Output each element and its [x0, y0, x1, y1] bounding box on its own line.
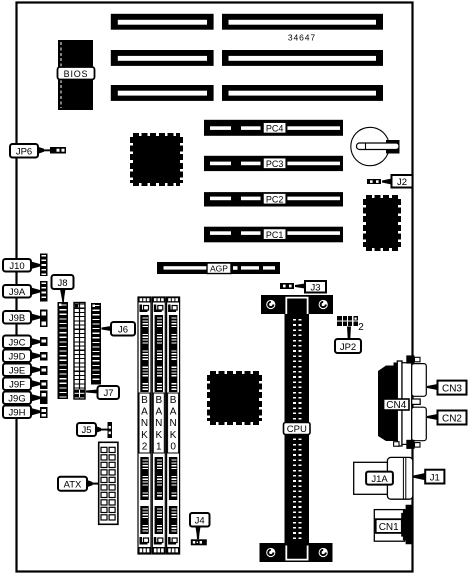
label J9B	[3, 311, 40, 324]
svg-text:CPU: CPU	[287, 424, 307, 435]
svg-text:J4: J4	[195, 515, 205, 526]
header J9F component	[40, 380, 48, 389]
svg-text:J5: J5	[81, 425, 91, 436]
svg-text:JP6: JP6	[16, 147, 32, 158]
connector J1A body	[354, 457, 413, 499]
label J4	[190, 513, 210, 539]
I/O bracket rail	[397, 361, 402, 446]
svg-text:J9G: J9G	[8, 394, 25, 405]
jumper JP6 target component	[50, 147, 66, 154]
svg-text:2: 2	[358, 322, 364, 333]
svg-text:B: B	[155, 395, 162, 406]
label J9D	[3, 350, 40, 363]
header J9E component	[40, 366, 48, 375]
label J9H	[3, 406, 40, 419]
label J9A	[3, 285, 40, 298]
ISA slot row 3 right segment	[222, 85, 383, 101]
label J9C	[3, 336, 40, 349]
ISA slot row 2 left segment	[111, 50, 214, 66]
DIMM socket BANK1	[152, 297, 165, 554]
header J4 component	[191, 539, 207, 545]
svg-text:A: A	[141, 407, 148, 418]
svg-text:J8: J8	[57, 278, 67, 289]
svg-text:PC2: PC2	[266, 194, 284, 204]
label J5	[77, 423, 108, 436]
svg-text:J9E: J9E	[9, 366, 25, 377]
svg-text:CN3: CN3	[442, 384, 462, 395]
header J9B component	[40, 310, 48, 328]
label CN4	[384, 399, 409, 411]
memory strip J8	[58, 302, 69, 399]
ISA slot row 3 left segment	[111, 85, 214, 101]
label J2	[382, 175, 413, 188]
svg-text:CN4: CN4	[386, 400, 406, 411]
label J8	[52, 275, 74, 302]
svg-text:PC3: PC3	[266, 159, 284, 169]
mid tab between CN3 and CN2	[412, 399, 421, 404]
svg-text:J9B: J9B	[9, 313, 25, 324]
svg-text:J9D: J9D	[9, 352, 26, 363]
label J1	[414, 470, 445, 484]
label CN3	[427, 381, 467, 395]
CPU slot bottom bracket	[260, 543, 333, 562]
I/O panel body	[402, 363, 412, 445]
svg-text:0: 0	[170, 441, 176, 452]
svg-text:J9H: J9H	[9, 408, 26, 419]
label JP6	[10, 144, 50, 158]
svg-text:K: K	[170, 430, 177, 441]
header J9H component	[40, 407, 48, 418]
label J9E	[3, 364, 40, 377]
CPU slot vertical body	[285, 314, 310, 543]
svg-text:J10: J10	[9, 261, 24, 272]
svg-text:J7: J7	[103, 388, 113, 399]
header J9C component	[40, 337, 48, 346]
svg-text:JP2: JP2	[340, 342, 356, 353]
PCI slot PC4	[204, 120, 343, 136]
PCI slot PC1	[204, 227, 343, 243]
part number 34647	[288, 33, 316, 43]
header J9G component	[40, 391, 48, 405]
PCI slot PC3	[204, 156, 343, 171]
label ATX	[58, 477, 99, 491]
DIMM socket BANK0	[167, 297, 180, 554]
label CPU	[284, 423, 311, 436]
chipset U1 (north bridge QFP)	[132, 135, 181, 184]
svg-text:CN1: CN1	[379, 522, 399, 533]
svg-text:J1: J1	[430, 473, 440, 484]
svg-text:PC4: PC4	[266, 124, 284, 134]
header JP2 component	[337, 316, 358, 326]
header J9D component	[40, 352, 48, 361]
svg-text:B: B	[170, 395, 177, 406]
svg-text:PC1: PC1	[266, 230, 284, 240]
svg-text:K: K	[141, 430, 148, 441]
CN4 internal connector block	[378, 363, 400, 442]
memory strip J6	[91, 303, 101, 385]
header J9A component	[40, 281, 48, 302]
label JP2	[335, 327, 361, 354]
svg-text:CN2: CN2	[442, 414, 462, 425]
BIOS chip	[58, 40, 93, 110]
svg-text:A: A	[155, 407, 162, 418]
svg-text:J1A: J1A	[371, 474, 388, 485]
jumper J3 component	[280, 283, 294, 289]
label CN1	[376, 519, 402, 533]
svg-text:2: 2	[142, 441, 148, 452]
memory strip J7 (grid pattern)	[74, 303, 85, 400]
label J9F	[3, 378, 40, 391]
header J5 component	[108, 422, 113, 438]
label J9G	[3, 392, 40, 405]
connector CN1 body	[374, 505, 413, 545]
label BIOS	[58, 67, 95, 80]
battery BT1	[351, 127, 400, 165]
ATX power connector	[99, 442, 118, 524]
chip U2 (right side QFP)	[365, 197, 399, 249]
svg-text:ATX: ATX	[64, 479, 82, 490]
svg-text:N: N	[155, 418, 162, 429]
svg-text:J6: J6	[118, 325, 128, 336]
bottom mounting hardware	[394, 440, 420, 449]
CPU slot 1 top bracket	[261, 295, 333, 314]
svg-text:N: N	[141, 418, 148, 429]
svg-text:J9A: J9A	[9, 287, 26, 298]
svg-text:J3: J3	[310, 282, 320, 293]
svg-text:J9C: J9C	[9, 338, 26, 349]
label J6	[102, 322, 136, 336]
pin 2 marker	[358, 322, 364, 333]
label J3	[295, 281, 326, 293]
port CN3 body	[412, 364, 427, 397]
ISA slot row 1 right segment	[222, 14, 383, 30]
header J2 component	[367, 179, 381, 184]
AGP slot	[157, 262, 280, 274]
ISA slot row 1 left segment	[111, 14, 214, 30]
label CN2	[427, 411, 467, 425]
header J10 component	[40, 254, 48, 277]
svg-text:N: N	[169, 418, 176, 429]
ISA slot row 2 right segment	[222, 50, 383, 66]
svg-text:AGP: AGP	[210, 264, 228, 274]
svg-text:A: A	[170, 407, 177, 418]
chipset U3 (south bridge QFP)	[209, 373, 260, 423]
label J7	[86, 386, 119, 399]
svg-text:34647: 34647	[288, 33, 316, 43]
label J1A	[366, 472, 393, 485]
svg-text:J9F: J9F	[9, 380, 25, 391]
svg-text:B: B	[141, 395, 148, 406]
PCI slot PC2	[204, 192, 343, 206]
port CN2 body	[412, 407, 427, 441]
top mounting hardware	[406, 355, 420, 363]
svg-text:K: K	[155, 430, 162, 441]
svg-text:BIOS: BIOS	[64, 69, 89, 79]
svg-text:1: 1	[156, 441, 162, 452]
DIMM socket BANK2	[138, 297, 151, 554]
svg-text:J2: J2	[397, 177, 407, 188]
label J10	[3, 259, 40, 272]
